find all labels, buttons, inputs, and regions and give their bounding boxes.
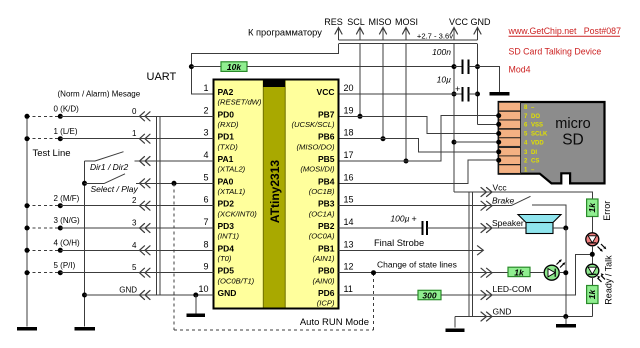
IC pin 5 label PA0 [203,172,245,196]
ground (right row left end) [446,329,465,333]
switch Select / Play [82,174,214,186]
svg-text:Mod4: Mod4 [509,65,531,75]
svg-text:15: 15 [344,195,354,205]
programmer signal arrow RES [324,17,343,40]
svg-text:Final Strobe: Final Strobe [374,238,424,248]
switch Dir1 / Dir2 [85,152,214,161]
wire pin11 PD6 to 300 [339,294,419,296]
op IC U1 ATtiny2313 body [214,80,339,309]
connector chevron left [140,268,151,277]
wire pin14 PB2 to 100u [339,227,423,229]
wire green LED to 1k [591,277,593,285]
programmer signal arrow MISO [368,17,391,40]
ground (top right) [490,92,510,96]
IC pin 2 label PD0 [203,105,239,129]
svg-text:PB5: PB5 [318,154,335,164]
wire message line 1 to pin 3 [25,136,214,141]
svg-text:UART: UART [147,71,177,83]
svg-text:(ICP): (ICP) [317,299,335,308]
svg-text:MOSI: MOSI [395,17,418,27]
svg-text:CS: CS [531,158,539,164]
svg-text:PB1: PB1 [318,243,335,253]
svg-text:(MISO/DO): (MISO/DO) [297,142,335,151]
svg-text:(INT1): (INT1) [218,232,240,241]
svg-text:PA2: PA2 [218,87,234,97]
svg-text:(RXD): (RXD) [218,120,240,129]
svg-text:17: 17 [344,150,354,160]
connector chevron left [140,112,151,121]
wire message line 2 to pin 6 [25,203,214,208]
IC pin 18 label PB6 [297,128,354,152]
svg-text:6: 6 [203,195,208,205]
wire pin15 PB3 Brake [339,205,512,207]
wire pin18 PB6 to SD DI [339,139,499,152]
title www.GetChip.net Post#087 [508,26,622,36]
node MISO/PB6 [381,136,386,141]
IC pin 11 label PD6 [317,284,353,308]
connector chevron right [481,188,492,197]
svg-text:Vcc: Vcc [493,182,508,192]
programmer signal arrow MOSI [395,17,418,40]
svg-text:0: 0 [132,107,137,116]
svg-text:5 (P/I): 5 (P/I) [54,261,76,270]
wire speaker to gnd column [553,227,566,229]
svg-text:3 (N/G): 3 (N/G) [54,216,81,225]
svg-text:PD0: PD0 [218,109,235,119]
IC pin 4 label PA1 [203,150,245,174]
programmer signal arrow VCC [449,17,469,40]
wire GND row to pin 10 [82,293,214,298]
svg-text:20: 20 [344,83,354,93]
wire MOSI vertical to pin 17 [405,44,407,161]
svg-text:Change of state lines: Change of state lines [377,259,457,269]
LED D3 green (state) [544,259,565,280]
IC pin 1 label PA2 [203,83,261,107]
node VCC/pin20 [452,92,457,97]
svg-text:Speaker: Speaker [492,218,524,228]
wire SCL vertical to pin 19 [359,44,361,116]
wire Vcc row [454,192,592,199]
wire GND branch to ground symbol [478,67,500,92]
wire gnd short drop [565,317,567,324]
svg-text:(XCK/INT0): (XCK/INT0) [218,209,258,218]
wire gnd left drop [454,317,456,328]
svg-text:DO: DO [531,114,540,120]
node pin10 ground tap [193,293,198,314]
svg-text:4: 4 [132,241,137,250]
svg-text:(OC1A): (OC1A) [309,209,335,218]
svg-text:PA1: PA1 [218,154,234,164]
wire 1k to LED [530,272,544,274]
wire pin19 PB7 to SD SCLK [339,116,499,133]
svg-text:(T0): (T0) [218,254,232,263]
svg-text:SCL: SCL [347,17,365,27]
speaker LS1 [518,215,561,234]
svg-text:(UCSK/SCL): (UCSK/SCL) [291,120,335,129]
node VCC/10k [452,64,457,69]
wire 10k to VCC rail [247,66,454,68]
svg-text:10µ: 10µ [437,75,451,85]
wire GND row right [455,316,592,318]
svg-text:MISO: MISO [368,17,391,27]
svg-text:13: 13 [344,239,354,249]
node LED junction [590,252,595,257]
svg-text:PB2: PB2 [318,221,335,231]
svg-text:Ready / Talk: Ready / Talk [604,255,614,305]
svg-text:16: 16 [344,172,354,182]
wire message line 0 to pin 2 [25,114,214,119]
IC pin 15 label PB3 [309,195,354,219]
wire pin13 PB1 Final Strobe [339,246,484,255]
resistor 1k Ready/Talk [587,286,598,304]
programmer signal arrow GND [471,17,492,40]
svg-text:Test Line: Test Line [33,148,71,159]
svg-text:1k: 1k [514,267,525,277]
svg-text:2: 2 [132,196,137,205]
IC pin 13 label PB1 [313,239,354,263]
resistor 10k (RESET pull-up) [221,62,247,72]
resistor 1k Error [587,199,598,217]
svg-text:VSS: VSS [531,123,543,129]
node SD pad 2 [496,158,501,163]
microSD pad 4 VDD [499,138,545,147]
svg-text:14: 14 [344,217,354,227]
microSD card body [499,102,605,183]
programmer connector bus (double line) [339,40,478,44]
microSD pad 8 – [499,102,535,111]
connector bus right (double line) [469,193,473,318]
node SD pad 7 [496,113,501,118]
wire pin17 PB5 to SD DO [339,116,499,161]
svg-text:1: 1 [203,83,208,93]
svg-text:Error: Error [602,201,612,221]
svg-text:Brake: Brake [492,195,514,205]
connector chevron left [140,134,151,143]
connector bus left (double line) [156,116,160,295]
connector chevron right [481,224,492,233]
svg-text:19: 19 [344,105,354,115]
node gnd/speaker column [563,314,568,319]
capacitor 10u electrolytic [454,84,478,102]
svg-text:4: 4 [203,150,208,160]
node PB0 test tap [371,270,376,275]
node SD pad 3 [496,149,501,154]
node LED/gnd column [563,270,568,275]
microSD pad 3 DI [499,148,538,157]
svg-text:3: 3 [203,128,208,138]
wire message line 4 to pin 8 [25,248,214,253]
wire 100u to speaker [427,227,526,229]
svg-text:(XTAL1): (XTAL1) [218,187,246,196]
svg-text:VCC: VCC [449,17,469,27]
svg-text:SCLK: SCLK [531,132,548,138]
capacitor 100n [454,60,478,75]
svg-text:(RESET/dW): (RESET/dW) [218,98,262,107]
connector chevron left [140,224,151,233]
svg-text:100µ: 100µ [390,214,409,224]
svg-text:1: 1 [132,129,137,138]
capacitor 100u [412,214,428,235]
svg-text:+: + [455,84,460,94]
svg-text:1 (L/E): 1 (L/E) [54,127,78,136]
svg-text:0 (K/D): 0 (K/D) [54,105,80,114]
wire RES to reset node [191,44,338,94]
wire VCC to SD VDD [454,141,499,143]
svg-text:Dir1 / Dir2: Dir1 / Dir2 [90,162,129,172]
svg-text:4 (O/H): 4 (O/H) [54,239,81,248]
svg-text:11: 11 [344,284,353,294]
svg-text:3: 3 [132,219,137,228]
node reset junction [189,64,194,69]
wire red LED to junction [591,246,593,264]
programmer signal arrow SCL [347,17,365,40]
svg-text:(Norm / Alarm) Mesage: (Norm / Alarm) Mesage [58,90,141,99]
ground (left rail) [17,327,37,331]
node GND/10u [475,92,480,97]
node SCL/PB7 [358,114,363,119]
node SD pad 4 [496,140,501,145]
svg-text:1k: 1k [587,202,597,213]
svg-text:12: 12 [344,262,354,272]
node SD pad 6 [496,122,501,127]
svg-text:PB0: PB0 [318,266,335,276]
ground (switch common) [75,327,96,331]
svg-text:2 (M/F): 2 (M/F) [54,194,80,203]
connector chevron left [140,157,151,166]
wire speaker gnd vertical [565,228,567,317]
wire 1k to red LED [591,217,593,233]
svg-text:5: 5 [203,172,208,182]
IC pin 9 label PD5 [203,262,254,286]
svg-text:+: + [412,214,417,224]
svg-text:(OC1B): (OC1B) [309,187,335,196]
node SD pad 5 [496,131,501,136]
IC pin 6 label PD2 [203,195,257,219]
wire left test rail [26,116,28,326]
svg-text:VCC: VCC [317,87,335,97]
svg-text:+2.7 - 3.6v: +2.7 - 3.6v [417,32,453,41]
IC pin 7 label PD3 [203,217,239,241]
svg-text:PB3: PB3 [318,199,335,209]
resistor 1k (state LED) [508,267,530,277]
wire reset to 10k [191,66,221,68]
svg-text:10: 10 [198,284,208,294]
svg-text:PB6: PB6 [318,132,335,142]
IC pin 14 label PB2 [309,217,354,241]
wire LED to gnd column [559,272,566,274]
svg-text:1k: 1k [587,289,597,300]
connector chevron right [481,201,492,210]
wire pin20 VCC [339,93,455,95]
node speaker/brake [563,226,568,231]
connector chevron left [140,246,151,255]
svg-text:RES: RES [324,17,343,27]
resistor 300 [418,290,441,300]
svg-text:PD6: PD6 [318,288,335,298]
svg-text:9: 9 [203,262,208,272]
wire switch common vertical [84,161,86,327]
node GND/100n [475,64,480,69]
IC pin 19 label PB7 [291,105,353,129]
connector chevron left [140,291,151,300]
wire VCC rail [453,44,455,192]
svg-text:К программатору: К программатору [248,28,322,38]
IC pin 16 label PB4 [309,172,354,196]
node VCC/VDD [452,140,457,145]
svg-text:300: 300 [422,290,436,300]
svg-text:(XTAL2): (XTAL2) [218,165,246,174]
svg-text:18: 18 [344,128,354,138]
svg-text:PB7: PB7 [318,109,335,119]
svg-text:PD2: PD2 [218,199,235,209]
svg-text:LED-COM: LED-COM [493,284,532,294]
ground (pin 10) [187,313,206,317]
svg-text:7: 7 [203,217,208,227]
wire 300 to LED junction [441,254,592,295]
label micro SD [555,116,590,149]
wire GND to SD VSS [478,123,499,125]
LED D1 red Error [586,233,607,252]
svg-text:PD5: PD5 [218,266,235,276]
svg-text:(AIN0): (AIN0) [313,276,335,285]
svg-text:100n: 100n [432,47,451,57]
IC pin 20 label VCC [317,83,354,97]
svg-text:www.GetChip.net Post#087: www.GetChip.net Post#087 [508,26,622,36]
node MOSI/PB5 [404,159,409,164]
svg-text:GND: GND [119,286,137,295]
node test line tap [172,181,177,186]
wire message line 5 to pin 9 [25,270,214,275]
svg-text:(MOSI/DI): (MOSI/DI) [300,165,335,174]
wire dashed test line (Select/Play to PB0) [174,183,374,330]
IC pin 8 label PD4 [203,239,234,263]
IC pin 3 label PD1 [203,128,238,152]
connector chevron left [140,179,151,188]
svg-text:DI: DI [531,150,537,156]
svg-text:micro: micro [555,116,590,132]
svg-text:PD1: PD1 [218,132,235,142]
microSD pad 1 – [499,165,535,174]
wire message line 3 to pin 7 [25,226,214,231]
IC pin 10 label GND [198,284,236,298]
svg-text:8: 8 [203,239,208,249]
connector chevron right [481,312,492,321]
svg-text:PB4: PB4 [318,176,335,186]
svg-text:SD Card Talking Device: SD Card Talking Device [509,47,602,57]
svg-text:GND: GND [218,288,237,298]
microSD pad 7 DO [499,111,541,120]
connector chevron left [140,201,151,210]
svg-text:2: 2 [203,105,208,115]
connector chevron right [481,291,492,300]
microSD pad 6 VSS [499,120,543,129]
svg-text:ATtiny2313: ATtiny2313 [268,160,282,223]
svg-text:PD4: PD4 [218,243,235,253]
microSD pad 5 SCLK [499,129,548,138]
svg-text:5: 5 [132,263,137,272]
svg-text:PD3: PD3 [218,221,235,231]
svg-text:GND: GND [493,306,512,316]
IC pin 12 label PB0 [313,262,354,286]
wire MISO vertical to pin 18 [382,44,384,139]
wire GND rail [477,44,479,124]
svg-text:Auto RUN Mode: Auto RUN Mode [300,317,369,328]
svg-text:(AIN1): (AIN1) [313,254,335,263]
microSD pad 2 CS [499,156,540,165]
wire pin16 PB4 to SD CS [339,160,499,183]
svg-text:(OC0A): (OC0A) [309,232,335,241]
svg-text:PA0: PA0 [218,176,234,186]
switch Brake [511,196,566,228]
svg-text:(TXD): (TXD) [218,142,239,151]
svg-text:Select / Play: Select / Play [91,184,139,194]
svg-text:VDD: VDD [531,140,544,146]
wire 1k to gnd row [591,304,593,317]
svg-text:SD: SD [562,132,584,149]
svg-text:10k: 10k [227,62,242,72]
connector chevron right [481,268,492,277]
svg-text:GND: GND [471,17,492,27]
IC pin 17 label PB5 [300,150,353,174]
LED D2 green Ready/Talk [586,264,605,282]
ground (speaker column) [556,324,576,328]
svg-text:(OC0B/T1): (OC0B/T1) [218,276,255,285]
wire pin12 PB0 row [339,272,509,274]
